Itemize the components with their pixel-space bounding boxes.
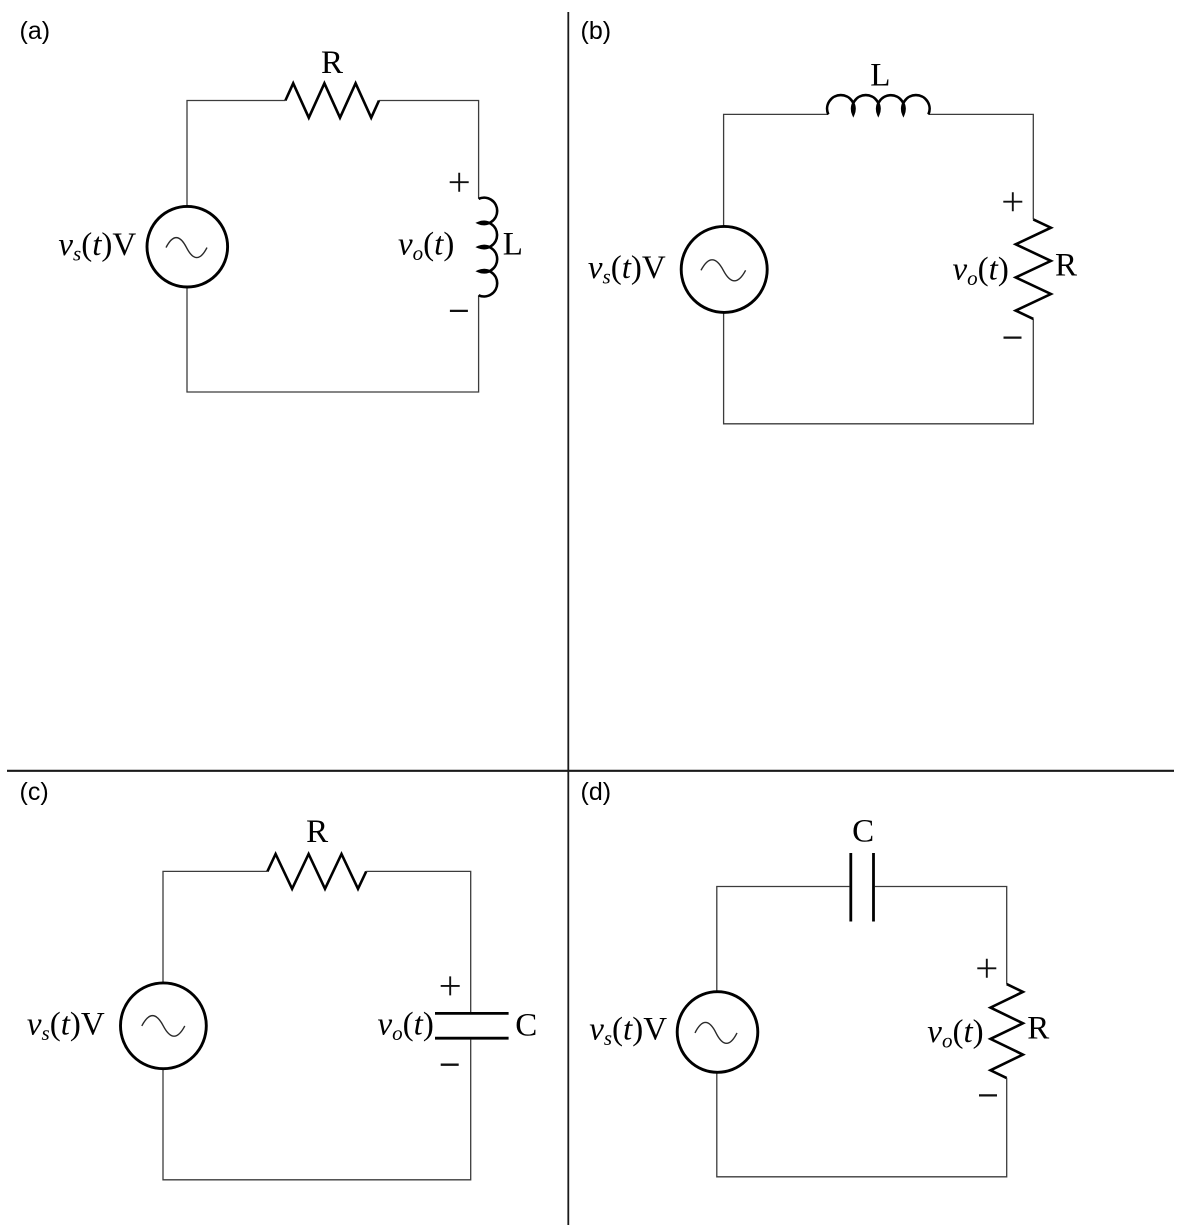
svg-text:C: C [515,1007,537,1043]
svg-text:(b): (b) [581,17,612,45]
svg-text:L: L [503,226,523,262]
svg-text:vo(t): vo(t) [927,1014,983,1053]
svg-text:R: R [1055,248,1077,284]
svg-text:C: C [852,814,874,850]
svg-text:vo(t): vo(t) [953,251,1009,290]
svg-text:vs(t)V: vs(t)V [588,250,666,289]
svg-text:vs(t)V: vs(t)V [27,1006,105,1045]
svg-text:vo(t): vo(t) [398,227,454,266]
svg-text:(a): (a) [20,17,51,45]
svg-text:(d): (d) [581,778,612,806]
svg-text:R: R [321,45,343,81]
svg-text:L: L [870,57,890,93]
svg-text:R: R [1027,1011,1049,1047]
svg-text:vo(t): vo(t) [378,1006,434,1045]
svg-text:vs(t)V: vs(t)V [589,1012,667,1051]
svg-text:vs(t)V: vs(t)V [58,227,136,266]
svg-text:R: R [306,814,328,850]
svg-text:(c): (c) [20,778,49,806]
